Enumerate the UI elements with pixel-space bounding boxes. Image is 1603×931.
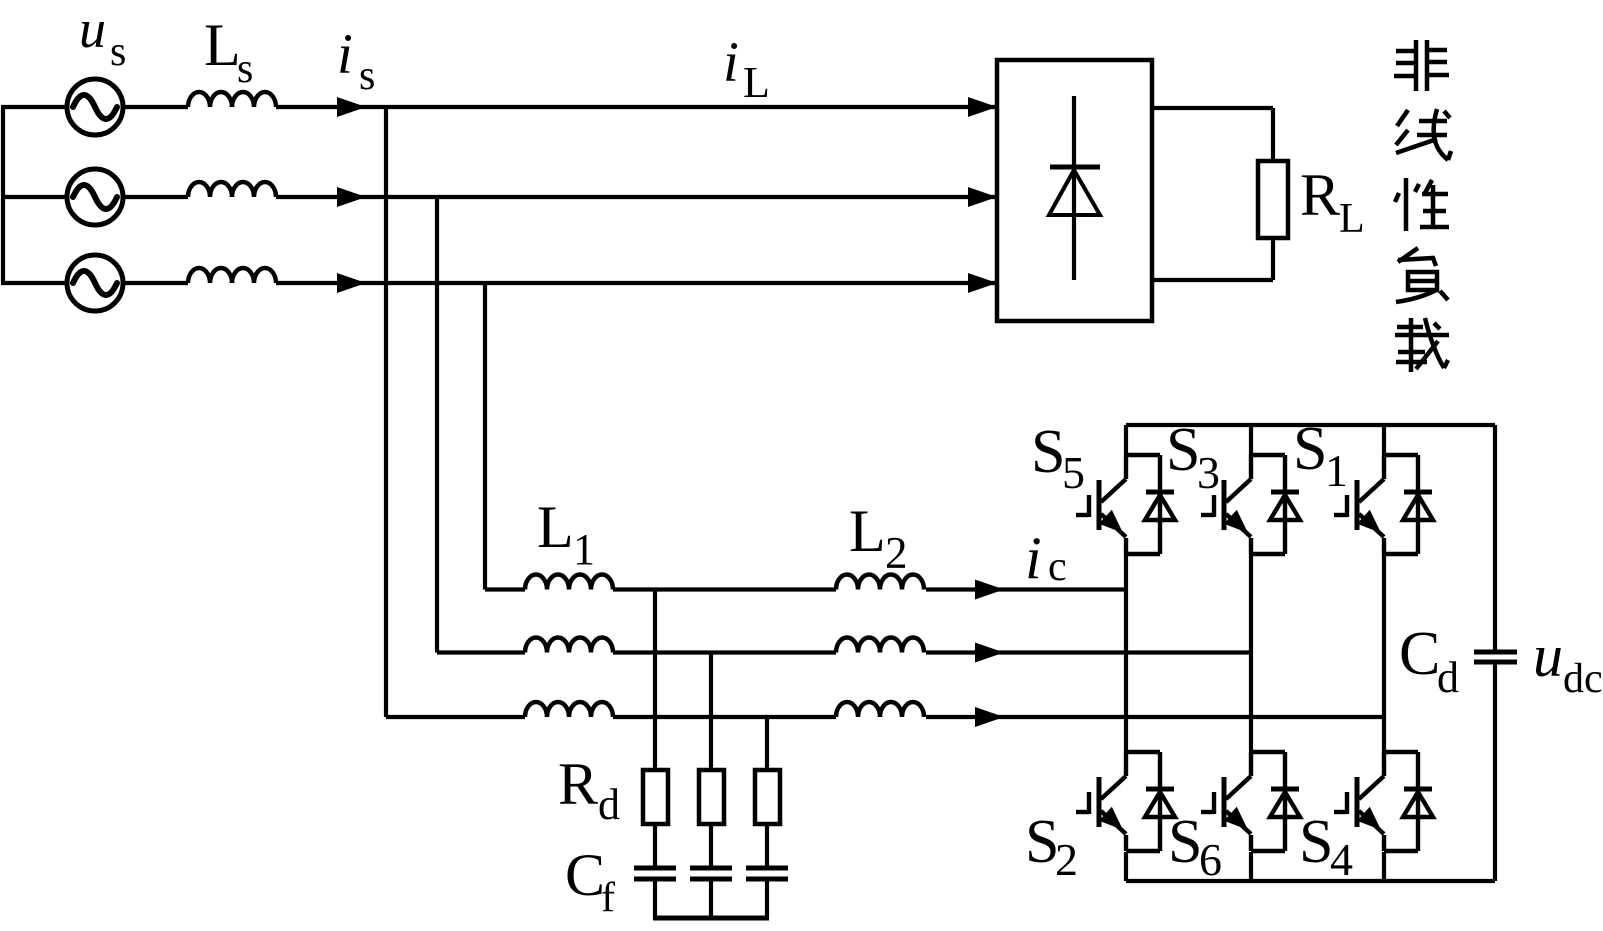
svg-text:i: i <box>723 31 739 94</box>
svg-text:L: L <box>1339 196 1365 242</box>
svg-text:4: 4 <box>1330 834 1353 885</box>
svg-text:i: i <box>1025 525 1042 591</box>
svg-text:L: L <box>204 12 241 78</box>
svg-text:1: 1 <box>573 525 595 574</box>
svg-text:2: 2 <box>885 528 908 578</box>
svg-text:S: S <box>1166 416 1200 484</box>
svg-text:R: R <box>558 751 598 817</box>
svg-text:dc: dc <box>1563 656 1603 702</box>
svg-text:d: d <box>1437 653 1459 702</box>
svg-text:C: C <box>1399 620 1440 688</box>
svg-text:R: R <box>1300 162 1340 228</box>
svg-text:2: 2 <box>1055 834 1078 885</box>
svg-text:3: 3 <box>1197 447 1220 498</box>
svg-text:S: S <box>1299 808 1333 876</box>
svg-text:1: 1 <box>1325 445 1348 496</box>
svg-text:c: c <box>1048 544 1067 590</box>
svg-text:f: f <box>601 875 615 921</box>
svg-text:6: 6 <box>1199 834 1222 885</box>
svg-text:s: s <box>359 53 375 99</box>
svg-text:L: L <box>743 58 770 107</box>
svg-text:d: d <box>598 780 620 829</box>
svg-text:S: S <box>1031 418 1065 486</box>
svg-text:s: s <box>237 46 253 92</box>
svg-text:L: L <box>849 498 886 564</box>
svg-text:i: i <box>337 23 353 86</box>
svg-text:u: u <box>1533 623 1563 689</box>
svg-text:u: u <box>79 0 106 59</box>
svg-text:C: C <box>565 842 605 908</box>
svg-text:s: s <box>110 29 126 75</box>
svg-text:S: S <box>1168 808 1202 876</box>
svg-text:5: 5 <box>1062 447 1085 498</box>
svg-text:L: L <box>537 494 574 560</box>
svg-text:S: S <box>1293 415 1327 483</box>
